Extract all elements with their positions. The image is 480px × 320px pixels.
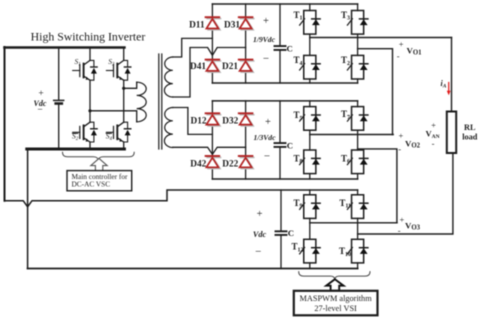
- svg-text:+: +: [400, 214, 405, 224]
- wire S1-S2 leg middle: [89, 80, 91, 122]
- wire secondary 2 top lead to rectifier 2 left midpoint: [173, 108, 213, 135]
- svg-text:D21: D21: [222, 62, 238, 72]
- wire T12 leg bottom: [309, 263, 311, 269]
- transistor S3: [106, 57, 130, 80]
- inductor transformer primary winding: [137, 82, 147, 122]
- svg-text:T10: T10: [339, 246, 351, 258]
- svg-text:−: −: [264, 151, 270, 163]
- current arrow iA: [448, 83, 450, 92]
- svg-text:VO2: VO2: [405, 138, 421, 149]
- box Main controller for DC-AC VSC: [67, 171, 132, 191]
- wire T8 leg bottom: [309, 174, 311, 179]
- wire S2 leg bottom: [89, 142, 91, 149]
- transistor T7: [347, 107, 368, 131]
- transistor T6: [347, 150, 368, 174]
- transistor T10: [347, 239, 368, 263]
- svg-text:+: +: [257, 209, 263, 220]
- svg-text:T7: T7: [341, 109, 350, 121]
- svg-text:+: +: [399, 131, 404, 141]
- svg-text:T1: T1: [293, 10, 302, 22]
- transistor T9: [300, 195, 321, 219]
- svg-text:S3: S3: [108, 57, 115, 68]
- svg-text:iA: iA: [441, 79, 447, 90]
- svg-text:T8: T8: [293, 153, 302, 165]
- wire T9 leg: [309, 190, 311, 195]
- svg-text:27-level VSI: 27-level VSI: [314, 304, 357, 313]
- wire VO3 plus output: [310, 222, 397, 224]
- svg-text:−: −: [255, 246, 261, 258]
- svg-text:−: −: [263, 53, 269, 65]
- transistor S4: [106, 122, 131, 142]
- capacitor C1 wires: [279, 4, 281, 83]
- svg-text:D22: D22: [222, 159, 238, 169]
- wire S3 leg top: [123, 48, 125, 61]
- svg-text:VO3: VO3: [405, 221, 421, 232]
- svg-text:+: +: [431, 120, 436, 130]
- svg-text:RL: RL: [464, 123, 476, 132]
- diode D21: [239, 60, 254, 73]
- transistor T1: [300, 11, 321, 35]
- svg-text:−: −: [37, 106, 42, 116]
- wire DC- bottom rail of input inverter: [27, 148, 125, 151]
- svg-text:VO1: VO1: [407, 45, 423, 56]
- capacitor C3: [276, 231, 287, 235]
- svg-text:-: -: [397, 51, 400, 61]
- svg-text:-: -: [398, 225, 401, 235]
- wire rectifier 2 right leg: [245, 101, 247, 179]
- wire DC- drop to bottom rail: [27, 150, 29, 269]
- svg-text:+: +: [263, 16, 269, 27]
- wire T9-T12 leg middle: [309, 218, 311, 239]
- wire T5-T8 leg middle: [309, 130, 311, 150]
- svg-text:T9: T9: [293, 198, 302, 210]
- svg-text:T12: T12: [291, 242, 303, 254]
- wire rectifier 1 / stage 1 top rail: [212, 3, 357, 5]
- wire secondary 2 bottom lead to rectifier 2 right midpoint (hop over left leg): [173, 147, 246, 154]
- wire T7-T6 leg middle: [357, 130, 359, 150]
- wire T11 leg: [357, 190, 359, 195]
- diode D31: [239, 17, 254, 30]
- transformer core: [159, 54, 162, 149]
- svg-text:S1: S1: [75, 57, 81, 68]
- inductor transformer secondary winding 1: [164, 57, 172, 97]
- wire VO1 plus output to load: [310, 37, 452, 39]
- wire VO2 plus output: [310, 134, 393, 136]
- svg-text:+: +: [265, 117, 271, 128]
- wire load feed vertical: [451, 38, 453, 112]
- wire T1-T4 leg middle: [309, 34, 311, 55]
- svg-text:D32: D32: [222, 117, 238, 127]
- wire S3-S4 leg middle: [123, 80, 125, 122]
- wire rectifier 1 / stage 1 bottom rail: [212, 82, 357, 84]
- svg-text:1/9Vdc: 1/9Vdc: [253, 35, 276, 44]
- capacitor C3 wires: [280, 190, 282, 269]
- transistor T2: [347, 55, 368, 79]
- wire VO3 minus output to load return: [358, 153, 453, 234]
- svg-text:T2: T2: [341, 55, 350, 67]
- node A inverter left midpoint: [88, 109, 91, 112]
- wire T10 leg bottom: [357, 263, 359, 269]
- capacitor C2: [275, 143, 286, 147]
- svg-text:D41: D41: [190, 62, 206, 72]
- transistor S1: [73, 57, 97, 80]
- diode D32: [239, 113, 254, 126]
- node B inverter right midpoint: [122, 87, 125, 90]
- transistor T3: [347, 11, 368, 35]
- diode D41: [206, 60, 221, 73]
- wire rectifier 2 / stage 2 top rail: [212, 100, 357, 102]
- transistor T5: [300, 107, 321, 131]
- wire T4 leg bottom: [309, 79, 311, 83]
- wire left DC bus vertical: [4, 47, 6, 201]
- svg-text:+: +: [38, 89, 43, 99]
- box MASPWM algorithm 27-level VSI: [294, 291, 378, 316]
- wire stage 3 bottom rail: [28, 268, 358, 270]
- svg-text:T11: T11: [339, 198, 351, 210]
- svg-text:C: C: [287, 140, 293, 150]
- wire T1 leg: [309, 4, 311, 11]
- battery Vdc: [58, 48, 60, 100]
- diode D11: [206, 17, 221, 30]
- inductor transformer secondary winding 2: [164, 108, 172, 148]
- svg-text:High Switching Inverter: High Switching Inverter: [31, 30, 146, 44]
- wire T6 leg bottom: [357, 174, 359, 179]
- svg-text:C: C: [288, 228, 294, 238]
- wire T3-T2 leg middle: [357, 34, 359, 55]
- transistor T8: [300, 150, 321, 174]
- transistor S2: [72, 122, 97, 142]
- wire bottom DC+ bus to third bridge (with crossover hop and step): [5, 190, 358, 207]
- svg-text:C: C: [287, 43, 293, 53]
- wire VO1 minus output: [358, 49, 393, 135]
- svg-text:T5: T5: [293, 110, 302, 122]
- svg-text:Vdc: Vdc: [253, 230, 267, 239]
- wire T11-T10 leg middle: [357, 218, 359, 239]
- wire inverter left midpoint to transformer primary bottom: [90, 111, 137, 122]
- wire secondary 1 top lead to rectifier 1 left midpoint: [173, 38, 213, 57]
- svg-text:DC-AC VSC: DC-AC VSC: [72, 180, 111, 189]
- brace under stage 3 bridge: [299, 272, 370, 279]
- wire DC+ top rail of input inverter: [5, 46, 125, 49]
- wire T7 leg: [357, 101, 359, 107]
- wire inverter right midpoint to transformer primary top: [124, 82, 137, 88]
- wire VO2 minus output: [358, 149, 397, 223]
- transistor T12: [300, 239, 321, 263]
- transistor T4: [300, 55, 321, 79]
- svg-text:D11: D11: [189, 21, 205, 31]
- diode D42: [206, 156, 221, 169]
- svg-text:D12: D12: [190, 117, 206, 127]
- wire S4 leg bottom: [123, 142, 125, 149]
- resistor RL load: [447, 112, 456, 154]
- svg-text:-: -: [398, 144, 401, 154]
- transistor T11: [347, 195, 368, 219]
- wire rectifier 1 right leg: [245, 4, 247, 83]
- svg-text:D31: D31: [224, 21, 240, 31]
- svg-text:MASPWM algorithm: MASPWM algorithm: [300, 294, 373, 303]
- wire S1 leg top: [89, 48, 91, 61]
- wire T2 leg bottom: [357, 79, 359, 83]
- svg-text:T3: T3: [341, 10, 350, 22]
- svg-text:load: load: [462, 133, 478, 142]
- wire rectifier 2 / stage 2 bottom rail: [212, 178, 357, 180]
- svg-text:T6: T6: [341, 153, 350, 165]
- brace under input inverter: [63, 152, 135, 160]
- arrow to main controller: [91, 158, 107, 171]
- diode D12: [206, 113, 221, 126]
- capacitor C2 wires: [279, 101, 281, 179]
- diode D22: [239, 156, 254, 169]
- wire rectifier 2 left leg: [211, 101, 213, 179]
- wire secondary 1 bottom lead to rectifier 1 right midpoint (hop over left leg): [173, 48, 246, 98]
- wire rectifier 1 left leg: [211, 4, 213, 83]
- arrow to MASPWM box: [326, 279, 343, 291]
- capacitor C1: [275, 46, 286, 50]
- svg-text:D42: D42: [190, 159, 206, 169]
- svg-text:+: +: [399, 39, 404, 49]
- wire T5 leg: [309, 101, 311, 107]
- svg-text:T4: T4: [293, 55, 302, 67]
- svg-text:1/3Vdc: 1/3Vdc: [254, 133, 277, 142]
- wire T3 leg: [357, 4, 359, 11]
- svg-text:-: -: [432, 139, 435, 149]
